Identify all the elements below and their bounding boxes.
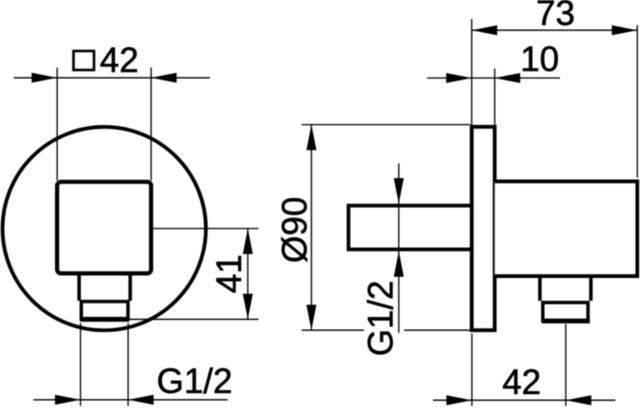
- front view: escutcheon circle D90: [3, 127, 206, 330]
- dim sq42: square symbol: [74, 51, 95, 70]
- side view: G1/2 thread nipple: [543, 303, 588, 321]
- front view: square body 42x42: [57, 182, 151, 274]
- dim G1/2 front: right extension line: [127, 323, 129, 406]
- side view: thread nipple bottom edge: [542, 319, 590, 324]
- dim G1/2 side: lower arrowhead: [394, 251, 404, 277]
- dim 41: bottom arrowhead: [243, 294, 253, 320]
- dim 73: right extension line: [636, 25, 638, 178]
- svg-text:41: 41: [210, 254, 249, 293]
- dim sq42: right arrowhead: [151, 73, 177, 83]
- dim G1/2 front: right arrowhead: [128, 395, 154, 405]
- svg-text:42: 42: [502, 363, 541, 402]
- svg-text:73: 73: [536, 0, 575, 33]
- dim 42 side: left extension line: [471, 334, 473, 407]
- dim G1/2 side: upper arrowhead: [394, 178, 404, 204]
- dim 41: top extension line: [152, 228, 259, 230]
- dim 41: top arrowhead: [243, 229, 253, 255]
- side view: outlet pipe: [349, 206, 472, 250]
- dim 73: left extension line (plate front): [471, 19, 473, 125]
- side view: connector step: [540, 277, 591, 301]
- svg-text:42: 42: [100, 41, 139, 80]
- dim G1/2 front: left extension line: [80, 323, 82, 406]
- side view: wall plate: [472, 127, 495, 330]
- dim 42 side: left arrowhead: [446, 395, 472, 405]
- dim D90: bottom extension line (interrupted by text): [302, 329, 470, 331]
- front view: thread nipple bottom edge: [80, 317, 129, 322]
- dim sq42: left arrowhead: [32, 73, 57, 83]
- front view: connector step: [79, 274, 130, 301]
- front view: G1/2 thread nipple: [81, 302, 128, 320]
- svg-text:G1/2: G1/2: [361, 280, 400, 356]
- svg-text:G1/2: G1/2: [157, 362, 233, 401]
- dim D90: dimension line: [310, 125, 312, 331]
- side view: body block behind plate: [495, 181, 638, 276]
- dim 41: dimension line: [247, 229, 249, 320]
- dim G1/2 front: dimension line: [33, 399, 227, 401]
- dim 73: right arrowhead: [612, 25, 638, 35]
- dim 10: right extension line: [494, 69, 496, 126]
- dim D90: top extension line: [302, 124, 470, 126]
- dim 10: right arrowhead: [495, 73, 521, 83]
- dim G1/2 side: center line through pipe: [398, 163, 400, 332]
- dim D90: top arrowhead: [306, 125, 316, 151]
- svg-text:Ø90: Ø90: [276, 197, 315, 263]
- svg-text:10: 10: [520, 40, 559, 79]
- dim 73: left arrowhead: [472, 25, 498, 35]
- dim sq42: dimension line: [14, 77, 210, 79]
- dim 42 side: dimension line: [433, 399, 616, 401]
- dim 41: bottom extension line: [130, 318, 259, 320]
- dim 73: dimension line: [472, 29, 638, 31]
- dim sq42: left extension line: [56, 68, 58, 181]
- dim 10: dimension line: [427, 77, 560, 79]
- dim sq42: right extension line: [150, 68, 152, 181]
- dim 42 side: right extension line (nipple axis): [565, 324, 567, 406]
- dim 42 side: right arrowhead: [566, 395, 592, 405]
- dim G1/2 front: left arrowhead: [55, 395, 81, 405]
- dim D90: bottom arrowhead: [306, 305, 316, 331]
- dim 10: left arrowhead: [446, 73, 472, 83]
